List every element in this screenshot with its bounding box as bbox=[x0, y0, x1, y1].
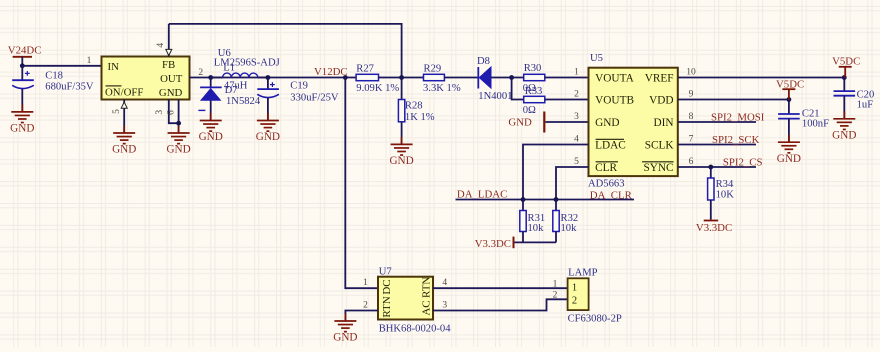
pin 4 (FB) bbox=[156, 24, 172, 57]
wire VREF to V5DC bbox=[678, 77, 844, 79]
diode D8 1N4001 bbox=[477, 56, 512, 102]
svg-text:1: 1 bbox=[574, 67, 579, 77]
pin 3 bbox=[155, 100, 179, 124]
wire U7 pin 2 to GND bbox=[345, 311, 378, 322]
svg-text:GND: GND bbox=[10, 123, 34, 135]
svg-text:GND: GND bbox=[508, 117, 532, 129]
svg-text:4: 4 bbox=[442, 278, 447, 288]
power port V5DC bbox=[776, 78, 804, 90]
power port V5DC bbox=[832, 56, 860, 68]
junction bbox=[343, 75, 348, 80]
svg-text:D8: D8 bbox=[477, 56, 490, 67]
svg-text:GND: GND bbox=[777, 153, 801, 165]
svg-text:CF63080-2P: CF63080-2P bbox=[568, 314, 622, 325]
svg-text:5: 5 bbox=[112, 109, 122, 114]
wire bbox=[21, 57, 23, 66]
wire DA nets bbox=[456, 199, 635, 201]
wire to U5 pin 1 bbox=[545, 77, 589, 79]
svg-text:R33: R33 bbox=[525, 86, 543, 97]
svg-text:RTN: RTN bbox=[381, 296, 393, 317]
connector LAMP CF63080-2P bbox=[568, 267, 622, 324]
svg-text:10k: 10k bbox=[561, 223, 578, 234]
svg-text:R34: R34 bbox=[716, 179, 734, 190]
regulator U6 LM2596S-ADJ bbox=[102, 48, 280, 100]
svg-text:R28: R28 bbox=[405, 100, 423, 111]
svg-text:C19: C19 bbox=[290, 80, 308, 91]
svg-text:0Ω: 0Ω bbox=[523, 105, 536, 116]
wire to U6 IN bbox=[22, 65, 101, 67]
svg-text:VREF: VREF bbox=[645, 72, 674, 84]
svg-text:SPI2_CS: SPI2_CS bbox=[723, 156, 763, 168]
svg-text:100nF: 100nF bbox=[802, 119, 829, 130]
IC U5 AD5663 bbox=[588, 53, 678, 189]
svg-text:U5: U5 bbox=[590, 53, 603, 64]
resistor R27 bbox=[356, 64, 399, 95]
junction bbox=[208, 75, 213, 80]
ground bbox=[778, 135, 800, 153]
svg-text:10K: 10K bbox=[716, 189, 735, 200]
wire SCLK bbox=[678, 144, 756, 146]
wire bbox=[444, 77, 477, 79]
wire bbox=[491, 77, 524, 79]
wire OUT rail bbox=[190, 77, 357, 79]
capacitor C19 bbox=[257, 78, 339, 121]
svg-text:3.3K 1%: 3.3K 1% bbox=[423, 83, 461, 94]
svg-text:4: 4 bbox=[156, 43, 166, 48]
svg-text:2: 2 bbox=[553, 291, 558, 301]
svg-text:1: 1 bbox=[87, 56, 92, 66]
svg-text:1K 1%: 1K 1% bbox=[405, 112, 435, 123]
svg-text:IN: IN bbox=[108, 61, 120, 73]
svg-text:R31: R31 bbox=[528, 213, 546, 224]
power port V3.3DC bbox=[475, 237, 514, 251]
resistor R32 bbox=[553, 200, 578, 243]
ground bbox=[833, 111, 855, 129]
resistor R34 bbox=[708, 167, 735, 220]
resistor R33 bbox=[523, 86, 545, 116]
svg-text:GND: GND bbox=[256, 131, 280, 143]
svg-text:RTN: RTN bbox=[421, 277, 433, 298]
svg-text:GND: GND bbox=[159, 87, 183, 99]
svg-text:OUT: OUT bbox=[160, 73, 183, 85]
svg-text:3: 3 bbox=[155, 110, 165, 115]
capacitor C20 bbox=[834, 78, 875, 119]
capacitor C21 bbox=[778, 100, 829, 143]
inductor L1 47uH bbox=[211, 62, 268, 91]
svg-text:VOUTA: VOUTA bbox=[595, 72, 634, 84]
svg-text:10k: 10k bbox=[528, 223, 545, 234]
svg-text:LDAC: LDAC bbox=[595, 139, 626, 151]
svg-text:AC: AC bbox=[421, 300, 433, 315]
svg-text:SCLK: SCLK bbox=[645, 139, 675, 151]
ground bbox=[168, 126, 190, 144]
svg-text:L1: L1 bbox=[223, 62, 235, 73]
junction bbox=[554, 197, 559, 202]
svg-text:2: 2 bbox=[198, 68, 203, 78]
wire to V3.3DC bbox=[514, 241, 556, 243]
ground bbox=[200, 113, 222, 131]
pin 6 bbox=[167, 100, 179, 134]
svg-text:1N5824: 1N5824 bbox=[226, 96, 261, 107]
wire FB feedback loop bbox=[169, 24, 402, 78]
svg-text:2: 2 bbox=[574, 89, 579, 99]
junction bbox=[399, 75, 404, 80]
svg-text:5: 5 bbox=[574, 157, 579, 167]
svg-text:R32: R32 bbox=[561, 213, 579, 224]
svg-text:FB: FB bbox=[162, 59, 175, 71]
svg-text:6: 6 bbox=[689, 157, 694, 167]
svg-text:V12DC: V12DC bbox=[314, 66, 348, 78]
svg-text:1uF: 1uF bbox=[857, 100, 874, 111]
svg-text:GND: GND bbox=[112, 144, 136, 156]
wire U7 pin 3 to LAMP 2 bbox=[433, 299, 568, 310]
wire VDD bbox=[678, 99, 789, 101]
svg-text:3: 3 bbox=[574, 112, 579, 122]
ground bbox=[11, 104, 33, 122]
svg-text:330uF/25V: 330uF/25V bbox=[290, 93, 339, 104]
wire V12DC to U7 pin 1 bbox=[345, 78, 378, 289]
wire CLR bbox=[556, 167, 589, 200]
power port V24DC bbox=[8, 45, 42, 57]
svg-text:V3.3DC: V3.3DC bbox=[475, 238, 511, 250]
wire to U5 pin 2 bbox=[545, 99, 589, 101]
svg-text:1: 1 bbox=[572, 282, 577, 293]
svg-text:R30: R30 bbox=[524, 63, 542, 74]
resistor R30 bbox=[523, 63, 545, 94]
svg-text:V5DC: V5DC bbox=[832, 56, 860, 68]
wire LDAC bbox=[523, 145, 589, 200]
svg-text:V24DC: V24DC bbox=[8, 45, 42, 57]
svg-text:SPI2_MOSI: SPI2_MOSI bbox=[711, 111, 765, 123]
svg-text:C18: C18 bbox=[45, 70, 63, 81]
svg-text:R29: R29 bbox=[424, 64, 442, 75]
svg-text:DC: DC bbox=[381, 279, 393, 294]
svg-text:SPI2_SCK: SPI2_SCK bbox=[712, 134, 760, 146]
power port GND (bar) bbox=[508, 112, 544, 133]
svg-text:1: 1 bbox=[363, 278, 368, 288]
resistor R29 bbox=[423, 64, 461, 95]
svg-text:BHK68-0020-04: BHK68-0020-04 bbox=[379, 324, 452, 335]
svg-text:9.09K 1%: 9.09K 1% bbox=[356, 83, 399, 94]
svg-text:AD5663: AD5663 bbox=[588, 178, 625, 189]
wire bbox=[788, 89, 790, 99]
svg-text:47uH: 47uH bbox=[224, 81, 248, 92]
wire bbox=[844, 67, 846, 78]
svg-text:GND: GND bbox=[389, 155, 413, 167]
svg-text:680uF/35V: 680uF/35V bbox=[45, 82, 94, 93]
resistor R31 bbox=[520, 200, 545, 243]
svg-text:4: 4 bbox=[574, 134, 579, 144]
svg-text:1N4001: 1N4001 bbox=[478, 91, 512, 102]
svg-text:3: 3 bbox=[442, 301, 447, 311]
junction bbox=[708, 165, 713, 170]
wire SYNC bbox=[678, 166, 756, 168]
svg-text:ON/OFF: ON/OFF bbox=[105, 87, 143, 99]
wire bbox=[379, 77, 424, 79]
junction bbox=[176, 121, 181, 126]
svg-text:1: 1 bbox=[553, 279, 558, 289]
ground bbox=[391, 137, 413, 155]
svg-text:GND: GND bbox=[166, 144, 190, 156]
svg-text:V5DC: V5DC bbox=[776, 78, 804, 90]
resistor R28 bbox=[398, 78, 434, 145]
svg-text:GND: GND bbox=[333, 332, 357, 344]
svg-text:6: 6 bbox=[167, 110, 177, 115]
svg-text:GND: GND bbox=[832, 129, 856, 141]
svg-text:U7: U7 bbox=[379, 266, 392, 277]
wire jog to R33 bbox=[512, 78, 524, 100]
svg-text:V3.3DC: V3.3DC bbox=[696, 222, 732, 234]
svg-text:LAMP: LAMP bbox=[568, 267, 598, 278]
svg-text:R27: R27 bbox=[356, 64, 374, 75]
IC U7 BHK68-0020-04 bbox=[378, 266, 451, 334]
ground bbox=[334, 314, 356, 332]
svg-text:7: 7 bbox=[689, 134, 694, 144]
junction bbox=[266, 75, 271, 80]
power port V3.3DC bbox=[696, 221, 732, 235]
junction bbox=[521, 197, 526, 202]
svg-text:GND: GND bbox=[199, 131, 223, 143]
svg-text:10: 10 bbox=[686, 67, 696, 77]
svg-text:CLR: CLR bbox=[595, 162, 617, 174]
svg-text:2: 2 bbox=[363, 301, 368, 311]
svg-text:8: 8 bbox=[689, 112, 694, 122]
wire DIN bbox=[678, 121, 756, 123]
capacitor C18 bbox=[12, 66, 94, 112]
wire U7 pin 4 to LAMP 1 bbox=[433, 287, 568, 289]
wire to U5 pin 3 bbox=[546, 121, 589, 123]
svg-text:2: 2 bbox=[572, 295, 577, 306]
svg-text:SYNC: SYNC bbox=[643, 162, 673, 174]
pin 5 (ON/OFF) bbox=[112, 100, 127, 134]
ground bbox=[257, 113, 279, 131]
junction bbox=[20, 63, 25, 68]
junction bbox=[509, 75, 514, 80]
svg-text:DIN: DIN bbox=[654, 117, 674, 129]
ground bbox=[113, 126, 135, 144]
svg-text:9: 9 bbox=[689, 89, 694, 99]
diode D7 1N5824 bbox=[198, 78, 260, 121]
svg-text:VDD: VDD bbox=[649, 94, 673, 106]
junction bbox=[842, 75, 847, 80]
svg-text:GND: GND bbox=[595, 117, 619, 129]
junction bbox=[787, 97, 792, 102]
svg-text:VOUTB: VOUTB bbox=[595, 94, 634, 106]
